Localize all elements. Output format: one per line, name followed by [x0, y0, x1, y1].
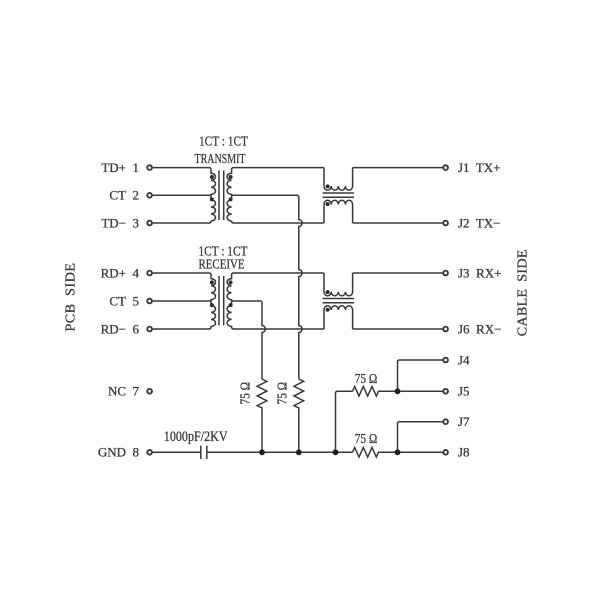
- svg-text:GND 8: GND 8: [98, 445, 139, 460]
- wire T1 secondary bottom to choke L1: [232, 221, 324, 223]
- transformer T1 secondary phase dot upper: [229, 175, 233, 179]
- choke L2 bottom phase dot: [326, 308, 330, 312]
- wire node to J4: [398, 360, 444, 391]
- transformer T1 primary winding: [211, 170, 216, 221]
- terminal J3: [443, 271, 448, 276]
- choke L1 core: [323, 193, 354, 197]
- transformer T2 secondary phase dot upper: [229, 280, 233, 284]
- choke L1 top phase dot: [326, 184, 330, 188]
- terminal J8: [443, 450, 448, 455]
- svg-text:J6 RX−: J6 RX−: [458, 321, 501, 336]
- terminal J6: [443, 327, 448, 332]
- choke L2 core: [323, 299, 354, 303]
- transformer T2 primary winding: [211, 275, 216, 327]
- wire choke L2 to J6: [353, 328, 444, 330]
- svg-text:TD− 3: TD− 3: [101, 215, 139, 230]
- transformer T1 core: [219, 171, 224, 221]
- svg-text:J8: J8: [458, 445, 470, 460]
- wire TD- pin3 to T1 primary bottom: [153, 221, 211, 223]
- choke L1 bottom phase dot: [326, 202, 330, 206]
- svg-text:RD+ 4: RD+ 4: [101, 265, 140, 280]
- choke L1 bottom winding: [324, 200, 353, 223]
- svg-text:CT 2: CT 2: [109, 188, 139, 203]
- transformer T1 primary phase dot lower: [210, 197, 214, 201]
- transformer T2 primary phase dot upper: [210, 280, 214, 284]
- terminal pin 4: [147, 271, 152, 276]
- terminal pin 7 NC: [147, 389, 152, 394]
- wire node to J7: [398, 422, 444, 453]
- svg-text:TD+ 1: TD+ 1: [101, 160, 139, 175]
- wire CT pin5 to T2 primary center tap: [153, 300, 211, 302]
- terminal pin 2: [147, 193, 152, 198]
- transformer T2 primary phase dot lower: [210, 303, 214, 307]
- junction node on ground bus at J7 branch: [395, 449, 401, 455]
- svg-text:RECEIVE: RECEIVE: [199, 258, 245, 273]
- terminal pin 3: [147, 221, 152, 226]
- wire T1 secondary top to choke L1: [232, 168, 324, 170]
- transformer T2 core: [219, 276, 224, 326]
- transformer T1 primary phase dot upper: [210, 175, 214, 179]
- svg-text:PCB SIDE: PCB SIDE: [63, 263, 78, 332]
- terminal J5: [443, 389, 448, 394]
- wire T1 secondary center tap to node R2 top, hops at rows J2,J3,J6: [232, 195, 303, 379]
- svg-text:J2 TX−: J2 TX−: [458, 215, 501, 230]
- transformer T1 secondary winding: [227, 170, 232, 221]
- svg-text:J3 RX+: J3 RX+: [458, 265, 501, 280]
- choke L2 bottom winding: [324, 306, 353, 329]
- svg-text:75 Ω: 75 Ω: [237, 382, 252, 405]
- terminal pin 5: [147, 299, 152, 304]
- resistor R3 75ohm horizontal: [353, 387, 444, 397]
- svg-text:75 Ω: 75 Ω: [355, 431, 378, 446]
- wire choke L1 to J1: [353, 167, 444, 169]
- wire T2 secondary bottom to choke L2: [232, 327, 324, 329]
- svg-text:CT 5: CT 5: [109, 293, 139, 308]
- wire ground bus riser to R3: [336, 391, 353, 452]
- junction node at J4/J5 branch: [395, 388, 401, 394]
- resistor R4 75ohm horizontal on ground bus: [353, 448, 444, 458]
- transformer T2 secondary phase dot lower: [229, 303, 233, 307]
- terminal pin 1: [147, 165, 152, 170]
- svg-text:J1 TX+: J1 TX+: [458, 160, 501, 175]
- choke L2 top phase dot: [326, 290, 330, 294]
- svg-text:TRANSMIT: TRANSMIT: [195, 152, 246, 167]
- choke L1 top winding: [324, 168, 353, 191]
- transformer T2 secondary winding: [227, 275, 232, 327]
- junction node on ground bus at R1: [259, 449, 265, 455]
- resistor R2 75ohm vertical: [294, 379, 304, 452]
- svg-text:1CT : 1CT: 1CT : 1CT: [199, 134, 248, 149]
- terminal J4: [443, 358, 448, 363]
- wire choke L1 to J2: [353, 222, 444, 224]
- svg-text:J4: J4: [458, 352, 470, 367]
- wire TD+ pin1 to T1 primary top: [153, 168, 211, 170]
- terminal J2: [443, 221, 448, 226]
- junction node on ground bus at riser: [333, 449, 339, 455]
- wire GND pin8 to C1: [153, 451, 201, 453]
- svg-text:CABLE SIDE: CABLE SIDE: [516, 249, 531, 336]
- terminal J1: [443, 165, 448, 170]
- svg-text:1000pF/2KV: 1000pF/2KV: [164, 429, 228, 445]
- resistor R1 75ohm vertical: [257, 379, 267, 452]
- svg-text:J5: J5: [458, 384, 470, 399]
- wire CT pin2 to T1 primary center tap: [153, 194, 211, 196]
- capacitor C1 1000pF/2KV left plate: [200, 446, 202, 459]
- terminal J7: [443, 419, 448, 424]
- wire T2 secondary top to choke L2: [232, 273, 324, 275]
- wire T2 secondary center tap to node R1 top, hop at row J6: [232, 301, 266, 379]
- choke L2 top winding: [324, 273, 353, 296]
- wire C1 to ground bus: [207, 451, 353, 453]
- capacitor C1 right plate: [206, 446, 208, 459]
- wire choke L2 to J3: [353, 272, 444, 274]
- terminal pin 8 GND: [147, 450, 152, 455]
- svg-text:75 Ω: 75 Ω: [355, 371, 378, 386]
- svg-text:J7: J7: [458, 414, 470, 429]
- wire RD- pin6 to T2 primary bottom: [153, 327, 211, 329]
- svg-text:NC 7: NC 7: [108, 384, 140, 399]
- terminal pin 6: [147, 327, 152, 332]
- transformer T1 secondary phase dot lower: [229, 197, 233, 201]
- junction node on ground bus at R2: [296, 449, 302, 455]
- svg-text:75 Ω: 75 Ω: [275, 382, 290, 405]
- svg-text:RD− 6: RD− 6: [101, 321, 140, 336]
- wire RD+ pin4 to T2 primary top: [153, 273, 211, 275]
